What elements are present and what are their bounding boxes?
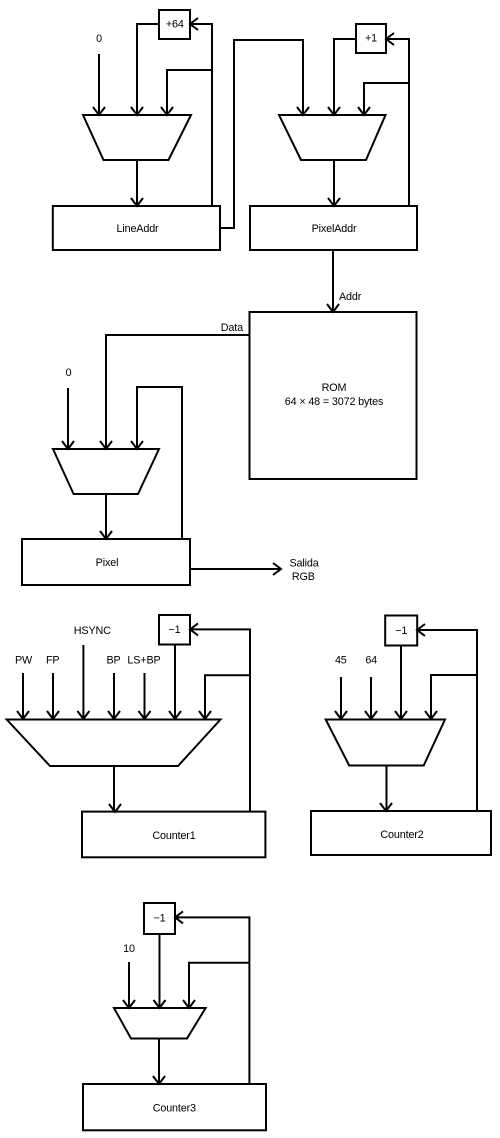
wire LineAddr output (top tap) to +64 input [190,18,212,206]
wire BP to mux M4 input 4 [108,673,120,719]
wire FP to mux M4 input 2 [47,673,59,719]
svg-text:Addr: Addr [339,291,362,303]
wire PW to mux M4 input 1 [17,673,29,719]
register LineAddr [53,206,220,250]
wire mux M2 output to register PixelAddr [328,160,340,206]
mux M4 (Counter1 input mux) [7,720,221,767]
wire Counter1 feedback to -1 input [190,623,250,812]
register Counter2 [311,811,491,855]
svg-text:−1: −1 [168,624,180,636]
register Counter1 [82,812,265,858]
wire mux M5 output to register Counter2 [380,766,392,812]
decrement box -1 (Counter1) [159,615,190,645]
wire mux M4 output to register Counter1 [109,766,121,812]
svg-text:PW: PW [15,655,33,667]
wire -1 output to mux M4 input 6 [169,644,181,719]
wire -1 output to mux M6 input 2 [154,934,166,1008]
ROM memory block [250,312,417,479]
wire PixelAddr output to ROM address input, net Addr [327,250,339,312]
svg-text:+64: +64 [166,19,184,31]
mux M2 (PixelAddr input mux) [279,115,386,160]
svg-text:+1: +1 [365,33,377,45]
wire PixelAddr output branch to mux M2 right input [358,83,409,115]
wire Counter3 feedback to -1 input [175,911,249,1084]
decrement box -1 (Counter3) [144,903,175,934]
wire Counter2 feedback to -1 input [417,624,477,811]
svg-text:0: 0 [66,367,72,379]
wire Counter1 feedback branch to mux M4 input 7 [199,675,250,719]
mux M6 (Counter3 input mux) [114,1008,206,1039]
wire constant 0 to mux M3 left input [62,388,74,449]
wire mux M6 output to register Counter3 [153,1039,165,1085]
svg-text:Data: Data [221,322,243,334]
svg-text:PixelAddr: PixelAddr [312,223,357,235]
svg-text:Counter2: Counter2 [380,829,423,841]
svg-text:−1: −1 [153,913,165,925]
svg-text:Salida: Salida [289,558,318,570]
adder box +1 [356,24,386,53]
svg-text:ROM: ROM [322,382,347,394]
wire Pixel output (top tap) to mux M3 right input [131,387,182,539]
svg-text:LS+BP: LS+BP [127,655,160,667]
wire LineAddr output branch to mux M1 right input [161,70,212,115]
wire ROM data output to mux M3 middle input, net Data [100,335,249,449]
decrement box -1 (Counter2) [385,616,417,646]
svg-text:64 × 48 = 3072 bytes: 64 × 48 = 3072 bytes [285,396,384,408]
svg-text:HSYNC: HSYNC [74,625,111,637]
wire 64 to mux M5 input 2 [365,677,377,719]
register Pixel [22,539,190,585]
svg-text:0: 0 [96,33,102,45]
svg-text:Pixel: Pixel [96,557,119,569]
wire 10 to mux M6 input 1 [123,962,135,1008]
svg-text:RGB: RGB [292,571,315,583]
svg-text:FP: FP [46,655,60,667]
wire mux M3 output to register Pixel [100,494,112,539]
wire PixelAddr output (top tap) to +1 input [386,33,409,206]
wire -1 output to mux M5 input 3 [395,645,407,719]
svg-text:Counter3: Counter3 [153,1102,196,1114]
svg-text:10: 10 [123,943,135,955]
wire +1 output to mux M2 middle input [328,39,356,115]
register Counter3 [83,1084,266,1130]
svg-text:BP: BP [106,655,120,667]
wire Counter3 feedback branch to mux M6 input 3 [183,963,249,1008]
wire +64 output to mux M1 middle input [131,24,159,115]
svg-text:64: 64 [365,655,377,667]
adder box +64 [159,10,190,39]
wire Counter2 feedback branch to mux M5 input 4 [425,675,477,719]
wire LineAddr output to mux M2 left input [220,40,309,228]
mux M1 (LineAddr input mux) [83,115,191,160]
mux M3 (Pixel input mux) [53,449,159,494]
wire LS+BP to mux M4 input 5 [139,673,151,719]
wire mux M1 output to register LineAddr [131,160,143,206]
wire HSYNC to mux M4 input 3 [77,645,89,719]
mux M5 (Counter2 input mux) [326,720,445,766]
wire 45 to mux M5 input 1 [335,677,347,719]
svg-text:Counter1: Counter1 [152,830,195,842]
svg-text:45: 45 [335,655,347,667]
wire constant 0 to mux M1 left input [93,54,105,115]
svg-text:−1: −1 [395,625,407,637]
wire Pixel register to RGB output, net Salida RGB [190,563,281,575]
svg-text:LineAddr: LineAddr [116,223,159,235]
register PixelAddr [250,206,417,250]
